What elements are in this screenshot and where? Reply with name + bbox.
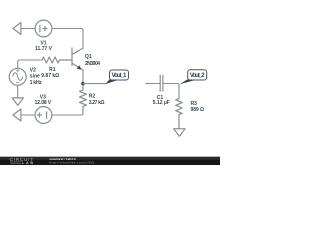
ground GND3 (left-pointing, at V3) [13,109,21,121]
ground GND1 (left-pointing, at V1 minus) [13,23,21,35]
svg-text:sine: sine [30,74,40,80]
svg-text:9.87 kΩ: 9.87 kΩ [41,73,59,79]
svg-text:5.12 µF: 5.12 µF [153,100,170,106]
wire V2 top to R1 [18,60,42,68]
label R1 value [41,67,59,79]
flag Vout_1 [105,70,128,84]
capacitor C1 [160,75,163,91]
svg-text:Vout_1: Vout_1 [112,72,128,79]
wire Q1 emitter down [82,70,84,83]
wire C1 to R3 corner [163,84,179,99]
voltage source V2 (sine) [9,68,26,85]
transistor Q1 2N3904 [72,48,83,70]
label R3 value [191,101,205,113]
svg-text:989 Ω: 989 Ω [191,107,205,113]
svg-text:Q1: Q1 [85,54,92,60]
wire V3 to R2 bottom [52,107,83,116]
wire C1 left (dangling) [146,83,160,85]
wire V2 bottom to ground [17,85,19,98]
wire V1 to Q1 collector [52,29,83,49]
label R2 value [89,93,105,106]
resistor R2 3.27k [80,84,87,107]
ground GND2 (down-pointing, under V2) [12,98,23,106]
wire GND1 to V1 [21,28,35,30]
svg-text:R1: R1 [49,67,56,73]
resistor R3 989 [176,99,183,129]
svg-text:R2: R2 [89,93,96,99]
svg-text:11.77 V: 11.77 V [35,46,53,52]
svg-text:V2: V2 [30,67,36,73]
svg-text:12.08 V: 12.08 V [35,100,52,106]
svg-text:2N3904: 2N3904 [85,61,100,67]
junction node (emitter/R2/Vout_1) [81,82,84,85]
svg-text:Vout_2: Vout_2 [190,72,206,79]
wire junction to Vout_1 flag [83,83,106,85]
svg-text:1 kHz: 1 kHz [30,80,43,86]
label C1 value [153,95,170,106]
wire GND3 to V3 [21,114,35,116]
svg-text:3.27 kΩ: 3.27 kΩ [89,100,105,106]
flag Vout_2 [179,70,206,85]
label V3 value [35,94,52,106]
label V1 value [35,40,53,51]
resistor R1 9.87k [42,57,72,63]
footer watermark bar [0,157,220,165]
voltage source V1 [35,20,52,37]
label Q1 [85,54,100,67]
svg-text:LAB: LAB [22,161,33,165]
voltage source V3 [35,107,52,124]
ground GND4 (down-pointing, under R3) [174,129,185,137]
svg-text:http://circuitlab.com/c7jh9: http://circuitlab.com/c7jh9 [50,160,95,164]
label V2 sine 1kHz [30,67,43,86]
